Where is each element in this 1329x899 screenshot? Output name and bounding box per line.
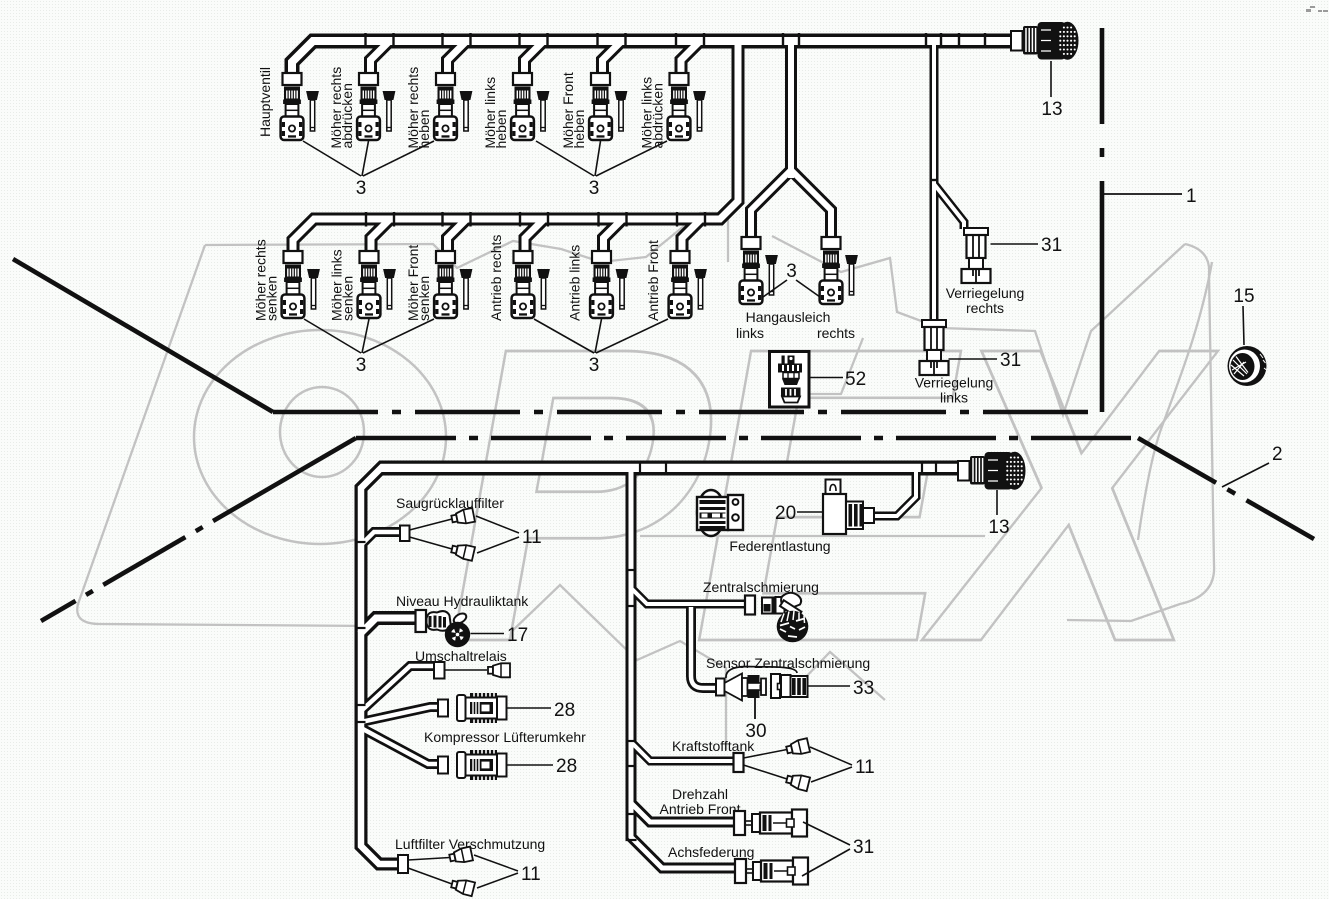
harness 1: main bus wires <box>292 41 1011 74</box>
svg-text:Achsfederung: Achsfederung <box>668 844 754 860</box>
svg-text:Federentlastung: Federentlastung <box>729 538 830 554</box>
svg-text:20: 20 <box>775 503 796 524</box>
svg-text:31: 31 <box>1041 235 1062 256</box>
watermark OPEX letters <box>194 330 446 544</box>
harness 2: trunk wires <box>361 467 958 864</box>
svg-text:Kompressor Lüfterumkehr: Kompressor Lüfterumkehr <box>424 729 586 745</box>
solenoid valve row2 #1: Möher rechts senken <box>282 251 320 318</box>
svg-text:3: 3 <box>356 178 367 199</box>
solenoid valve row1 #2: Möher rechts abdrücken <box>357 73 395 140</box>
callout 3 (group row1 left) <box>303 141 820 353</box>
callout 1 <box>1104 193 1182 195</box>
svg-text:Kraftstofftank: Kraftstofftank <box>672 738 755 754</box>
svg-text:rechts: rechts <box>817 325 855 341</box>
svg-text:3: 3 <box>356 355 367 376</box>
callout 2 <box>1222 463 1269 487</box>
svg-text:3: 3 <box>589 178 600 199</box>
connector 13 (top) <box>1011 22 1078 60</box>
svg-text:52: 52 <box>845 369 866 390</box>
solenoid valve row1 #5: Möher Front heben <box>589 73 627 140</box>
relay Federentlastung <box>697 490 725 536</box>
svg-text:17: 17 <box>507 625 528 646</box>
svg-text:3: 3 <box>786 261 797 282</box>
svg-text:Antrieb rechts: Antrieb rechts <box>488 235 504 321</box>
unit 20 <box>826 480 841 496</box>
svg-text:1: 1 <box>1186 186 1197 207</box>
svg-text:11: 11 <box>522 527 542 548</box>
svg-text:Antrieb Front: Antrieb Front <box>645 240 661 321</box>
solenoid valve Hangausleich links <box>740 237 778 304</box>
svg-text:31: 31 <box>853 837 874 858</box>
solenoid valve row1 #3: Möher rechts heben <box>434 73 472 140</box>
svg-text:Umschaltrelais: Umschaltrelais <box>415 648 507 664</box>
solenoid valve row1 #1: Hauptventil <box>281 73 319 140</box>
svg-text:3: 3 <box>589 355 600 376</box>
svg-text:Hauptventil: Hauptventil <box>257 67 273 137</box>
svg-text:Zentralschmierung: Zentralschmierung <box>703 579 819 595</box>
solenoid valve Hangausleich rechts <box>820 237 858 304</box>
connector Verriegelung rechts (31) <box>962 228 991 283</box>
solenoid valve row1 #6: Möher links abdrücken <box>668 73 706 140</box>
svg-text:Möher linksabdrücken: Möher linksabdrücken <box>639 77 666 149</box>
solenoid valve row2 #4: Antrieb rechts <box>512 251 550 318</box>
solenoid valve row1 #4: Möher links heben <box>511 73 549 140</box>
tiny corner logo <box>1306 6 1328 12</box>
svg-text:Verriegelung: Verriegelung <box>915 375 994 391</box>
solenoid valve row2 #3: Möher Front senken <box>434 251 472 318</box>
svg-text:28: 28 <box>556 756 577 777</box>
svg-text:31: 31 <box>1000 350 1021 371</box>
svg-text:Verriegelung: Verriegelung <box>946 285 1025 301</box>
svg-text:Hangausleich: Hangausleich <box>746 309 831 325</box>
svg-text:28: 28 <box>554 700 575 721</box>
svg-text:links: links <box>940 390 968 406</box>
svg-text:Antrieb links: Antrieb links <box>567 245 583 321</box>
svg-text:11: 11 <box>855 757 875 778</box>
svg-text:33: 33 <box>853 678 874 699</box>
connector Verriegelung links (31) <box>920 320 949 375</box>
svg-text:2: 2 <box>1272 444 1283 465</box>
svg-text:13: 13 <box>988 517 1009 538</box>
control box 52 <box>770 352 810 408</box>
bus tick marks <box>366 33 986 227</box>
connector 13 (bottom) <box>958 452 1025 490</box>
svg-text:rechts: rechts <box>966 300 1004 316</box>
trunk tick marks <box>355 461 937 841</box>
solenoid valve row2 #2: Möher links senken <box>358 251 396 318</box>
branch Kompressor Lüfterumkehr (28) upper <box>438 700 448 717</box>
watermark machine outline <box>77 213 1214 750</box>
svg-text:11: 11 <box>521 864 541 885</box>
svg-text:13: 13 <box>1041 99 1062 120</box>
solenoid valve row2 #6: Antrieb Front <box>669 251 707 318</box>
machine boundary thick dash-dot lines <box>13 28 1314 621</box>
svg-text:Niveau Hydrauliktank: Niveau Hydrauliktank <box>396 593 529 609</box>
svg-text:links: links <box>736 325 764 341</box>
svg-text:Antrieb Front: Antrieb Front <box>660 801 741 817</box>
svg-text:Saugrücklauffilter: Saugrücklauffilter <box>396 495 504 511</box>
svg-text:Drehzahl: Drehzahl <box>672 786 728 802</box>
svg-text:15: 15 <box>1233 286 1254 307</box>
connector 15 <box>1228 346 1267 386</box>
solenoid valve row2 #5: Antrieb links <box>590 251 628 318</box>
